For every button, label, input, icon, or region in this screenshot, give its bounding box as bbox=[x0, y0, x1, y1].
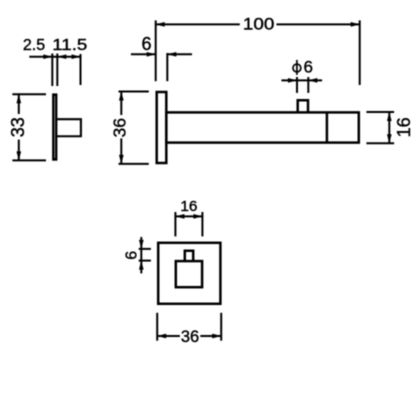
arrow right (36 bottom right) bbox=[212, 334, 221, 339]
dim 36 bottom: dimension line (broken for text) bbox=[157, 335, 180, 337]
dim 100: dimension line (broken for text) bbox=[156, 23, 240, 25]
arrow left (100 left) bbox=[156, 22, 165, 27]
svg-text:2.5: 2.5 bbox=[23, 37, 45, 54]
front view: flange plate bbox=[157, 92, 167, 163]
arrow up (33 top) bbox=[16, 94, 21, 103]
dim 6 plate: dimension line bbox=[131, 53, 156, 55]
arrow left (36 bottom left) bbox=[157, 334, 166, 339]
arrow up (36 front top) bbox=[119, 92, 124, 101]
dim 6 bottom: extension lines bbox=[139, 248, 151, 250]
dim 2.5/11.5: extension line 1 bbox=[51, 54, 53, 87]
arrow right (phi6 left) bbox=[288, 78, 297, 83]
dim 6 plate: extension line bbox=[166, 53, 168, 81]
dim 16 top: extension lines bbox=[174, 212, 176, 236]
dim 100: extension lines bbox=[155, 20, 157, 81]
arrow up (16 right top) bbox=[387, 112, 392, 121]
svg-text:33: 33 bbox=[8, 117, 28, 137]
arrow left (6 plate right) bbox=[167, 52, 176, 57]
bottom view: arm cross-section square bbox=[176, 261, 202, 287]
dim 36 front: dimension line (broken for text) bbox=[120, 92, 122, 116]
side view: wall plate bbox=[53, 95, 56, 160]
svg-text:16: 16 bbox=[394, 117, 414, 137]
svg-text:16: 16 bbox=[180, 199, 197, 215]
arrow left at ext2 (11.5 left) bbox=[57, 54, 66, 59]
dim 16 right: dimension line bbox=[388, 112, 390, 143]
bottom view: pin bbox=[185, 251, 193, 261]
side view: stub bbox=[56, 119, 81, 136]
front view: end-cap divider line bbox=[326, 112, 329, 142]
dim phi6: extension lines bbox=[296, 77, 298, 93]
arrow right (16 top right) bbox=[193, 214, 202, 219]
arrow down (16 right bottom) bbox=[387, 134, 392, 143]
arrow left (phi6 right) bbox=[308, 78, 317, 83]
svg-text:6: 6 bbox=[303, 58, 312, 77]
dim 33: extension lines bbox=[12, 93, 46, 95]
arrow up (6 bottom lower) bbox=[139, 261, 144, 270]
front view: arm bbox=[166, 112, 358, 142]
arrow right (6 plate left) bbox=[147, 52, 156, 57]
dim 36 front: extension lines bbox=[119, 91, 149, 93]
arrow down (33 bottom) bbox=[16, 151, 21, 160]
svg-text:36: 36 bbox=[110, 118, 130, 137]
dim 2.5/11.5: extension line 2 bbox=[56, 54, 58, 87]
svg-text:6: 6 bbox=[123, 251, 140, 260]
dim 16 right: extension lines bbox=[366, 111, 394, 113]
arrow right at ext3 (11.5 right) bbox=[72, 54, 81, 59]
dim 33: dimension line (broken for text) bbox=[18, 94, 20, 114]
dim 36 bottom: extension lines bbox=[156, 313, 158, 341]
dim 16 top: dimension line bbox=[175, 215, 202, 217]
label phi6: diameter symbol bbox=[293, 64, 301, 72]
front view: pin bbox=[298, 100, 308, 112]
arrow right (100 right) bbox=[351, 22, 360, 27]
svg-text:11.5: 11.5 bbox=[52, 37, 87, 54]
dim 11.5: extension line 3 bbox=[80, 54, 82, 85]
svg-text:36: 36 bbox=[181, 328, 199, 346]
arrow right at ext1 (2.5 left) bbox=[43, 54, 52, 59]
svg-text:6: 6 bbox=[141, 34, 151, 54]
bottom view: flange square bbox=[158, 243, 220, 304]
arrow down (36 front bottom) bbox=[119, 155, 124, 164]
dim 6 bottom: dimension line bbox=[140, 237, 142, 273]
dim phi6: dimension line bbox=[281, 79, 322, 81]
arrow left (16 top left) bbox=[175, 214, 184, 219]
arrow down (6 bottom upper) bbox=[139, 240, 144, 249]
svg-text:100: 100 bbox=[243, 16, 275, 34]
dim 2.5/11.5: dimension line bbox=[29, 56, 80, 58]
